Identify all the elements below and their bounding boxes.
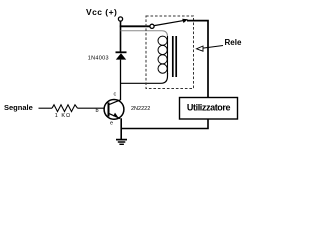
wire junction to coil bottom [121,73,168,83]
relay switch blade [154,19,188,26]
svg-text:Segnale: Segnale [4,103,33,112]
wire resistor to base [78,107,104,109]
svg-text:1 KΩ: 1 KΩ [55,113,71,119]
svg-text:Utilizzatore: Utilizzatore [187,103,231,113]
Vcc terminal [118,17,122,21]
wire Vcc to relay coil top [121,31,168,38]
relay dashed box [146,16,194,89]
wire Vcc to switch common [120,25,150,27]
svg-text:c: c [114,92,117,98]
label b [96,108,99,114]
svg-text:Rele: Rele [225,38,242,47]
svg-text:2N2222: 2N2222 [131,106,150,112]
svg-text:1N4003: 1N4003 [88,55,109,61]
wire Utilizzatore bottom to emitter node [121,119,208,129]
ground [116,140,127,145]
wire switch to right [187,21,208,98]
wire diode to junction [120,60,122,84]
transistor Q1 2N2222 [104,100,124,120]
svg-text:e: e [110,120,113,126]
wire Vcc vertical [120,21,122,52]
label Rele [225,38,242,47]
relay switch pivot [150,24,154,28]
wire Segnale to resistor [39,107,53,109]
relay coil L1 [158,36,168,74]
label 2N2222 [131,106,150,112]
svg-text:Vcc (+): Vcc (+) [86,7,117,17]
label 1N4003 [88,55,109,61]
label e [110,120,113,126]
resistor 1 KΩ [52,105,78,112]
Utilizzatore box [180,98,238,120]
label 1 KΩ [55,113,71,119]
node Vcc label [86,7,117,17]
Rele pointer arrow [197,46,224,52]
label Segnale [4,103,33,112]
wire emitter down [120,118,122,139]
relay core [173,36,176,77]
label c [114,92,117,98]
svg-text:b: b [96,108,99,114]
diode 1N4003 [116,52,127,59]
wire junction to collector [120,84,122,101]
